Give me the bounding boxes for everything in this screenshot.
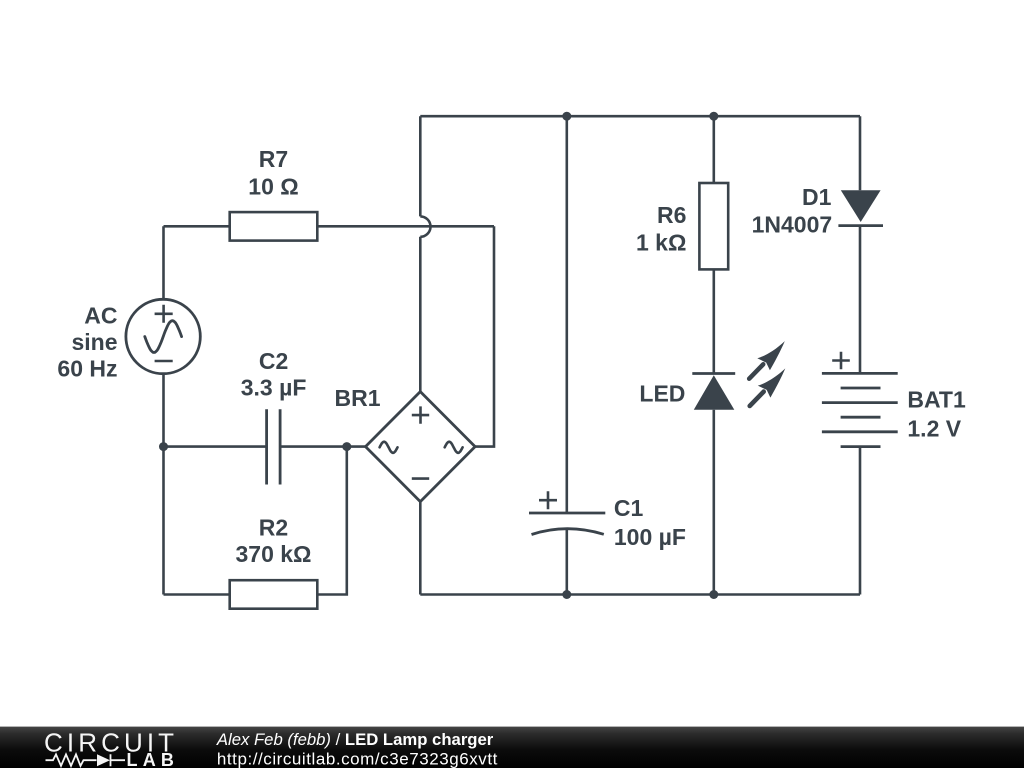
wire bottom rail — [420, 593, 860, 596]
wire C2 row right — [280, 445, 365, 448]
footer banner — [0, 727, 1024, 768]
voltage source V1 AC — [57, 299, 200, 381]
wire AC branch upper — [162, 226, 165, 299]
wire R2 loop — [164, 447, 347, 595]
rectifier BR1 — [334, 385, 475, 502]
svg-text:370 kΩ: 370 kΩ — [236, 541, 312, 567]
wire R6 branch top — [712, 116, 715, 183]
svg-text:3.3 µF: 3.3 µF — [241, 375, 307, 401]
svg-text:60 Hz: 60 Hz — [57, 355, 117, 381]
wire D1 to battery — [859, 227, 862, 373]
svg-text:C2: C2 — [259, 348, 288, 374]
wire LED to bottom rail — [712, 410, 715, 595]
wire R7 row from AC to right vertical — [164, 225, 495, 228]
svg-text:BR1: BR1 — [334, 385, 380, 411]
node junction dot top rail C1 — [562, 112, 571, 121]
wire top rail — [420, 115, 860, 118]
node junction dot top rail R6 — [709, 112, 718, 121]
capacitor C2 — [241, 348, 307, 484]
svg-text:AC: AC — [84, 302, 117, 328]
wire C2 row left — [164, 445, 267, 448]
footer credit text — [216, 730, 498, 768]
svg-text:R6: R6 — [657, 202, 686, 228]
wire C1 branch top — [565, 116, 568, 513]
svg-text:R2: R2 — [259, 514, 288, 540]
svg-text:100 µF: 100 µF — [614, 524, 686, 550]
svg-text:http://circuitlab.com/c3e7323g: http://circuitlab.com/c3e7323g6xvtt — [217, 749, 498, 768]
wire R6 to LED — [712, 269, 715, 373]
svg-text:Alex Feb (febb) / LED Lamp cha: Alex Feb (febb) / LED Lamp charger — [216, 730, 494, 749]
svg-text:LED: LED — [639, 380, 685, 406]
diode D1 — [752, 184, 883, 237]
svg-text:BAT1: BAT1 — [907, 386, 966, 412]
svg-text:10 Ω: 10 Ω — [248, 174, 298, 200]
battery BAT1 — [822, 352, 966, 447]
CircuitLab logo — [44, 728, 179, 768]
svg-text:1N4007: 1N4007 — [752, 212, 833, 238]
svg-text:D1: D1 — [802, 184, 832, 210]
resistor R7 — [230, 146, 318, 241]
svg-text:1.2 V: 1.2 V — [907, 416, 961, 442]
resistor R2 — [230, 514, 318, 608]
wire from top rail down to bridge top with hop — [420, 116, 430, 391]
node junction dot bottom rail LED — [709, 590, 718, 599]
LED light arrows — [749, 341, 785, 406]
wire battery to bottom rail — [859, 447, 862, 595]
node junction dot C2-R2-bridge — [342, 442, 351, 451]
wire bridge bottom to bottom rail — [419, 502, 422, 595]
resistor R6 — [636, 183, 728, 269]
wire right vertical down to bridge right corner — [475, 226, 494, 446]
wire D1 branch top — [859, 116, 862, 190]
node junction dot bottom rail C1 — [562, 590, 571, 599]
svg-text:1 kΩ: 1 kΩ — [636, 230, 686, 256]
diode LED — [639, 372, 735, 410]
svg-text:C1: C1 — [614, 495, 644, 521]
wire AC branch lower — [162, 374, 165, 595]
capacitor C1 polarized — [529, 491, 686, 550]
node junction dot AC-C2 — [159, 442, 168, 451]
svg-text:sine: sine — [71, 329, 117, 355]
svg-text:LAB: LAB — [127, 750, 180, 768]
svg-text:R7: R7 — [259, 146, 288, 172]
wire C1 branch bottom — [565, 528, 568, 595]
